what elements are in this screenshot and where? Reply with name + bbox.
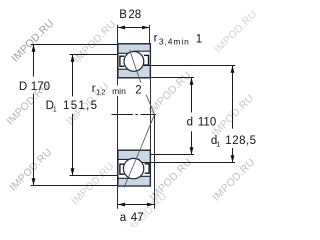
svg-text:IMPOD.RU: IMPOD.RU bbox=[122, 190, 169, 227]
svg-text:110: 110 bbox=[198, 117, 216, 129]
right B extension bbox=[149, 25, 151, 44]
svg-text:1,2: 1,2 bbox=[96, 89, 105, 96]
svg-text:151,5: 151,5 bbox=[63, 100, 98, 112]
arrowhead D top bbox=[32, 45, 36, 52]
inner ring band with right shoulder (top) bbox=[118, 150, 150, 162]
arrowhead D bottom bbox=[32, 178, 36, 185]
svg-text:IMPOD.RU: IMPOD.RU bbox=[7, 146, 54, 193]
dimension line a bbox=[118, 204, 155, 206]
arrowhead B left bbox=[118, 26, 125, 30]
arrowhead D1 top bbox=[71, 55, 75, 62]
bottom extension bbox=[31, 185, 118, 187]
svg-text:IMPOD.RU: IMPOD.RU bbox=[9, 17, 56, 64]
svg-text:170: 170 bbox=[31, 81, 50, 93]
svg-text:IMPOD.RU: IMPOD.RU bbox=[69, 160, 116, 207]
arrowhead B right bbox=[142, 26, 149, 30]
arrowhead a left bbox=[118, 203, 125, 207]
svg-text:1: 1 bbox=[196, 33, 202, 45]
svg-text:r: r bbox=[92, 83, 96, 95]
arrowhead d top bbox=[190, 78, 194, 85]
svg-text:r: r bbox=[154, 32, 158, 44]
svg-text:47: 47 bbox=[131, 212, 144, 224]
top extension bbox=[31, 44, 118, 46]
outer ring band bbox=[118, 44, 150, 54]
svg-text:B: B bbox=[119, 9, 127, 21]
watermark tiles IMPOD.RU bbox=[4, 8, 259, 237]
svg-text:a: a bbox=[120, 212, 127, 224]
arrowhead d bottom bbox=[190, 147, 194, 154]
svg-text:1: 1 bbox=[53, 107, 57, 114]
cage left bbox=[120, 164, 124, 174]
svg-text:IMPOD.RU: IMPOD.RU bbox=[210, 156, 257, 203]
svg-text:IMPOD.RU: IMPOD.RU bbox=[71, 18, 118, 65]
arrowhead d1 bottom bbox=[231, 155, 235, 162]
section outline bbox=[118, 44, 150, 78]
arrowhead D1 bottom bbox=[71, 168, 75, 175]
outer ring band (bottom) bbox=[118, 176, 150, 186]
right face connector bbox=[150, 78, 152, 151]
svg-text:d: d bbox=[187, 117, 193, 129]
inner ring band with right shoulder bbox=[118, 65, 150, 77]
section outline bbox=[118, 150, 150, 186]
svg-text:28: 28 bbox=[128, 9, 141, 21]
ball bbox=[124, 52, 144, 72]
cage right bbox=[145, 164, 149, 173]
ball bbox=[123, 158, 143, 178]
svg-text:1: 1 bbox=[216, 141, 220, 148]
svg-text:IMPOD.RU: IMPOD.RU bbox=[146, 69, 193, 116]
arrowhead a right bbox=[147, 203, 154, 207]
cage right bbox=[144, 55, 149, 65]
section body bbox=[118, 44, 150, 78]
svg-text:min: min bbox=[112, 86, 126, 96]
svg-text:D: D bbox=[19, 81, 27, 93]
apex extension for a bbox=[154, 115, 156, 209]
left face line bbox=[117, 25, 119, 209]
svg-text:128,5: 128,5 bbox=[225, 135, 256, 147]
dimension line B bbox=[118, 27, 150, 29]
arrowhead d1 top bbox=[231, 66, 235, 73]
text mask behind value 2 bbox=[133, 83, 149, 95]
cage left bbox=[120, 56, 124, 66]
svg-text:IMPOD.RU: IMPOD.RU bbox=[212, 8, 259, 55]
svg-text:2: 2 bbox=[135, 85, 141, 97]
text mask behind min bbox=[112, 86, 129, 97]
svg-text:3,4min: 3,4min bbox=[159, 36, 190, 46]
